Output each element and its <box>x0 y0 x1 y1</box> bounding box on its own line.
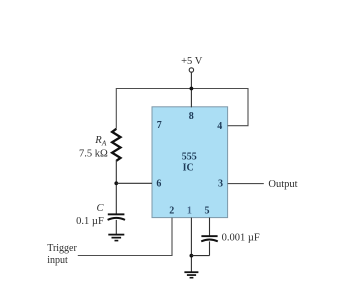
svg-text:Output: Output <box>268 179 297 190</box>
ground symbol below C <box>108 234 124 242</box>
svg-text:1: 1 <box>187 206 192 217</box>
capacitor 0.001uF top plate <box>201 235 217 237</box>
capacitor C top plate <box>108 213 125 215</box>
capacitor C bottom plate (curved) <box>108 218 125 220</box>
wire junction to pin 6 <box>116 182 152 184</box>
svg-text:8: 8 <box>189 111 194 122</box>
svg-text:555: 555 <box>182 152 197 163</box>
svg-text:7: 7 <box>157 120 162 131</box>
+5 V supply terminal circle <box>189 68 193 72</box>
junction dot pin1 node <box>190 254 194 258</box>
wire pin 3 output <box>228 183 264 185</box>
wire cap C to ground <box>115 220 117 234</box>
svg-text:4: 4 <box>217 121 222 132</box>
IC U1 555 body <box>152 107 228 218</box>
wire cap 0.001uF bottom to node <box>209 241 211 255</box>
svg-text:7.5 kΩ: 7.5 kΩ <box>79 148 108 159</box>
svg-text:5: 5 <box>205 206 210 217</box>
svg-text:+5 V: +5 V <box>181 56 203 67</box>
svg-text:6: 6 <box>156 178 161 189</box>
ground symbol below pin 1 <box>184 271 198 278</box>
svg-text:0.001 µF: 0.001 µF <box>222 233 260 244</box>
wire pin 5 to cap <box>209 218 211 236</box>
wire top rail from left corner to right corner <box>116 89 248 129</box>
wire pin 2 trigger <box>78 218 172 256</box>
svg-text:2: 2 <box>169 206 174 217</box>
svg-text:input: input <box>47 255 68 266</box>
junction dot at +5V rail <box>190 87 194 91</box>
wire resistor bottom to junction and cap C <box>115 160 117 214</box>
junction dot node threshold <box>114 181 118 185</box>
capacitor 0.001uF bottom plate (curved) <box>201 239 218 241</box>
wire pin1 node to cap branch <box>191 255 209 257</box>
wire pin 1 to ground <box>190 218 192 272</box>
svg-text:IC: IC <box>183 162 194 173</box>
svg-text:0.1 µF: 0.1 µF <box>76 216 104 227</box>
svg-text:C: C <box>96 203 104 214</box>
svg-text:3: 3 <box>218 178 223 189</box>
wire +5V stub down to rail and pin 8 <box>190 72 192 107</box>
svg-text:Trigger: Trigger <box>47 243 77 254</box>
resistor R_A zigzag <box>112 129 120 161</box>
